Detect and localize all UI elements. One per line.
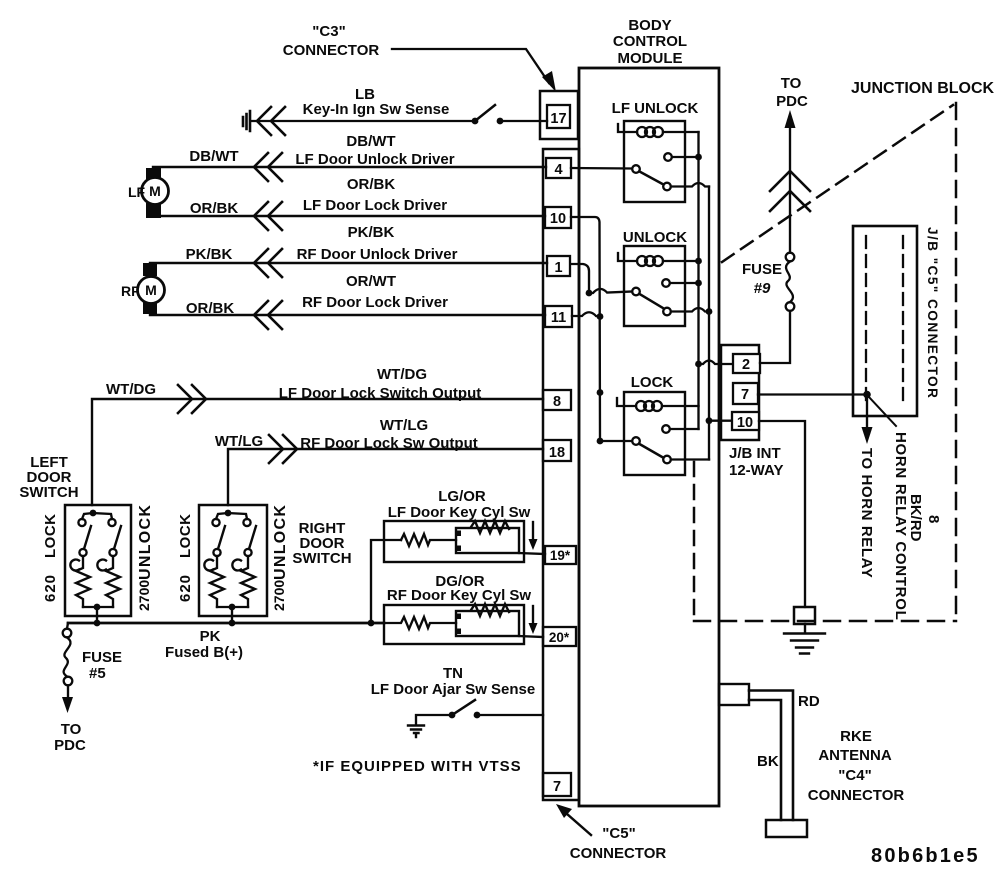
wire OR/WT RF door lock driver bbox=[150, 314, 545, 316]
relay UNLOCK lower contact bbox=[663, 308, 671, 316]
right door switch box bbox=[199, 505, 267, 616]
svg-text:LOCK: LOCK bbox=[177, 514, 194, 559]
svg-text:LF: LF bbox=[128, 184, 146, 200]
relay UNLOCK blade bbox=[640, 294, 664, 308]
svg-text:PDC: PDC bbox=[54, 737, 86, 754]
svg-text:BODY: BODY bbox=[628, 17, 671, 34]
svg-text:LF UNLOCK: LF UNLOCK bbox=[612, 100, 699, 117]
svg-text:JUNCTION BLOCK: JUNCTION BLOCK bbox=[851, 80, 995, 97]
RKE antenna connector stub bbox=[719, 684, 749, 705]
svg-text:PK: PK bbox=[200, 628, 221, 645]
svg-text:SWITCH: SWITCH bbox=[19, 484, 78, 501]
RF door key cyl switch box bbox=[384, 605, 524, 644]
wire J/B pin7 to horn relay bbox=[758, 393, 867, 395]
label C3 CONNECTOR bbox=[283, 23, 380, 59]
wire PK fused B+ bus bbox=[68, 622, 384, 625]
svg-text:18: 18 bbox=[549, 445, 565, 461]
node pin11 join bbox=[597, 313, 604, 320]
relay LF UNLOCK common contact bbox=[632, 165, 640, 173]
junction block dashed right edge bbox=[955, 103, 958, 619]
svg-text:DB/WT: DB/WT bbox=[189, 148, 238, 165]
svg-text:UNLOCK: UNLOCK bbox=[623, 229, 687, 246]
svg-text:TO: TO bbox=[61, 721, 82, 738]
LF door ajar switch bbox=[416, 715, 452, 725]
svg-text:RF Door Unlock Driver: RF Door Unlock Driver bbox=[297, 246, 458, 263]
node horn relay wire bbox=[863, 391, 871, 399]
relay LF UNLOCK blade bbox=[640, 172, 664, 185]
svg-text:WT/LG: WT/LG bbox=[380, 417, 428, 434]
svg-text:TO HORN RELAY: TO HORN RELAY bbox=[858, 448, 875, 578]
J/B pin 2 bbox=[733, 354, 760, 373]
chevron arrows on key-in wire bbox=[257, 107, 285, 135]
pointer line BK/RD label bbox=[869, 397, 896, 426]
motor LF bbox=[146, 168, 161, 180]
wire pin 10 lock driver line bbox=[571, 217, 600, 441]
node right switch top bbox=[225, 510, 232, 517]
svg-text:CONTROL: CONTROL bbox=[613, 33, 687, 50]
wire LF key cyl to pin 19 bbox=[519, 553, 545, 554]
svg-text:620: 620 bbox=[177, 574, 194, 602]
RKE antenna block bbox=[766, 820, 807, 837]
label C5 CONNECTOR bottom bbox=[570, 825, 667, 862]
wire DB/WT LF door unlock driver bbox=[153, 166, 546, 168]
resistor 2700 right switch bbox=[241, 556, 255, 607]
left door switch box bbox=[65, 505, 131, 616]
wire fuse 9 to PDC bbox=[789, 125, 791, 253]
relay LF UNLOCK upper contact bbox=[664, 153, 672, 161]
wire pin 1 to unlock common bbox=[571, 264, 589, 293]
right switch C hooks bbox=[204, 560, 213, 571]
svg-text:"C3": "C3" bbox=[312, 23, 345, 40]
label TN LF Door Ajar Sw Sense bbox=[371, 665, 535, 698]
arrow to horn relay bbox=[866, 395, 868, 430]
svg-text:J/B INT: J/B INT bbox=[729, 445, 781, 462]
svg-text:7: 7 bbox=[553, 779, 561, 795]
relay LOCK upper contact bbox=[662, 425, 670, 433]
relay LOCK lower contact bbox=[663, 456, 671, 464]
label LG/OR LF Door Key Cyl Sw bbox=[388, 488, 531, 521]
svg-text:*IF EQUIPPED WITH VTSS: *IF EQUIPPED WITH VTSS bbox=[313, 758, 522, 775]
svg-text:SWITCH: SWITCH bbox=[292, 550, 351, 567]
svg-text:WT/DG: WT/DG bbox=[377, 366, 427, 383]
RF key cyl contacts bbox=[456, 614, 461, 620]
junction block dashed diagonal bbox=[722, 105, 953, 262]
wire WT/DG LF door lock switch output bbox=[92, 399, 543, 505]
wire WT/LG RF door lock sw output bbox=[228, 449, 543, 505]
right switch contacts and blades bbox=[216, 513, 247, 519]
chevrons on PDC wire bbox=[770, 171, 810, 211]
right door switch rotated labels bbox=[177, 504, 289, 611]
pin 4 bbox=[546, 158, 571, 178]
svg-text:OR/WT: OR/WT bbox=[346, 273, 396, 290]
body control module outline bbox=[579, 68, 719, 806]
resistor RF key cyl left bbox=[384, 617, 456, 629]
J/B pin 7 bbox=[733, 383, 758, 404]
svg-text:Key-In Ign Sw Sense: Key-In Ign Sw Sense bbox=[303, 101, 450, 118]
wire switch to pin 17 bbox=[500, 120, 547, 122]
LF door key cyl switch box bbox=[384, 521, 524, 562]
label TO PDC bottom left bbox=[54, 721, 86, 754]
svg-text:Fused B(+): Fused B(+) bbox=[165, 644, 243, 661]
svg-text:4: 4 bbox=[554, 162, 562, 178]
svg-text:CONNECTOR: CONNECTOR bbox=[570, 845, 667, 862]
J/B INT 12-WAY connector outline bbox=[721, 345, 759, 440]
pin 20 bbox=[543, 627, 576, 646]
ground connector box bbox=[794, 607, 815, 624]
svg-text:LF Door Lock Switch Output: LF Door Lock Switch Output bbox=[279, 385, 482, 402]
svg-text:OR/BK: OR/BK bbox=[347, 176, 396, 193]
junction block dashed left edge bbox=[693, 462, 696, 621]
svg-text:#5: #5 bbox=[89, 665, 106, 682]
svg-text:RF: RF bbox=[121, 283, 140, 299]
svg-text:PK/BK: PK/BK bbox=[186, 246, 233, 263]
svg-text:J/B "C5" CONNECTOR: J/B "C5" CONNECTOR bbox=[925, 227, 940, 399]
svg-text:#9: #9 bbox=[754, 280, 771, 297]
J/B pin 10 bbox=[732, 412, 759, 430]
svg-text:1: 1 bbox=[554, 260, 562, 276]
relay LF UNLOCK lower contact bbox=[663, 183, 671, 191]
wire RD bbox=[749, 691, 793, 821]
svg-text:17: 17 bbox=[550, 111, 566, 127]
svg-text:RD: RD bbox=[798, 693, 820, 710]
svg-text:FUSE: FUSE bbox=[82, 649, 122, 666]
RF key cyl inner switch box bbox=[456, 611, 519, 636]
pin 8 bbox=[543, 390, 571, 410]
fuse #5 bbox=[67, 623, 68, 629]
junction block dashed bottom edge bbox=[694, 620, 956, 623]
relay UNLOCK common contact bbox=[632, 288, 640, 296]
svg-text:10: 10 bbox=[737, 415, 753, 431]
relay LOCK common contact bbox=[632, 437, 640, 445]
svg-text:LF Door Unlock Driver: LF Door Unlock Driver bbox=[295, 151, 454, 168]
wire node to LOCK common bbox=[600, 440, 632, 442]
node line B to J/B pin 10 bbox=[706, 417, 713, 424]
svg-text:RF Door Lock Driver: RF Door Lock Driver bbox=[302, 294, 448, 311]
svg-text:UNLOCK: UNLOCK bbox=[137, 504, 154, 580]
ground ajar switch bbox=[408, 726, 424, 738]
svg-text:LF Door Lock Driver: LF Door Lock Driver bbox=[303, 197, 447, 214]
pin 19 bbox=[545, 546, 576, 564]
svg-text:LF Door Ajar Sw Sense: LF Door Ajar Sw Sense bbox=[371, 681, 535, 698]
wire key-in ign sw sense bbox=[251, 120, 475, 122]
wire lower contact bus line B bbox=[708, 187, 710, 460]
svg-text:OR/BK: OR/BK bbox=[190, 200, 239, 217]
svg-text:TO: TO bbox=[781, 75, 802, 92]
svg-text:M: M bbox=[149, 183, 161, 199]
svg-text:WT/LG: WT/LG bbox=[215, 433, 263, 450]
wire pin 4 to LF UNLOCK common bbox=[571, 167, 632, 170]
LF key cyl contacts bbox=[456, 531, 461, 537]
svg-text:2700: 2700 bbox=[136, 580, 152, 611]
resistor LF key cyl top bbox=[471, 521, 509, 533]
key-in wire left end connector bars bbox=[243, 111, 250, 131]
relay UNLOCK box bbox=[624, 246, 685, 326]
fuse #9 bbox=[786, 302, 795, 311]
svg-text:FUSE: FUSE bbox=[742, 261, 782, 278]
pin 10 bbox=[545, 207, 571, 228]
node lock common join bbox=[597, 438, 604, 445]
label RKE ANTENNA C4 CONNECTOR bbox=[808, 728, 905, 804]
svg-text:OR/BK: OR/BK bbox=[186, 300, 235, 317]
key-in switch bbox=[472, 118, 479, 125]
relay LOCK box bbox=[624, 392, 685, 475]
svg-text:LOCK: LOCK bbox=[42, 514, 59, 559]
svg-text:RKE: RKE bbox=[840, 728, 872, 745]
svg-text:12-WAY: 12-WAY bbox=[729, 462, 783, 479]
svg-text:M: M bbox=[145, 282, 157, 298]
wire line B to J/B pin 10 bbox=[709, 420, 732, 422]
svg-text:TN: TN bbox=[443, 665, 463, 682]
wire J/B pin2 to fuse 9 bbox=[760, 311, 790, 363]
svg-text:UNLOCK: UNLOCK bbox=[272, 504, 289, 580]
label LB Key-In Ign Sw Sense bbox=[303, 86, 450, 118]
motor RF bbox=[143, 263, 157, 276]
resistor RF key cyl top bbox=[471, 604, 509, 616]
svg-text:LG/OR: LG/OR bbox=[438, 488, 486, 505]
relay LOCK blade bbox=[640, 444, 664, 458]
svg-text:8: 8 bbox=[925, 515, 942, 523]
svg-text:CONNECTOR: CONNECTOR bbox=[808, 787, 905, 804]
label J/B INT 12-WAY bbox=[729, 445, 783, 479]
svg-text:11: 11 bbox=[551, 310, 566, 326]
label RIGHT DOOR SWITCH bbox=[292, 520, 351, 567]
svg-text:19*: 19* bbox=[550, 548, 571, 563]
svg-text:WT/DG: WT/DG bbox=[106, 381, 156, 398]
arrow into pin 19 bbox=[532, 522, 534, 540]
resistor LF key cyl left bbox=[401, 534, 456, 546]
resistor 2700 left switch bbox=[106, 556, 120, 607]
arrow to PDC bbox=[785, 110, 796, 128]
wire B+ bus line A bbox=[697, 132, 699, 429]
pin 17 bbox=[547, 105, 570, 128]
label LEFT DOOR SWITCH bbox=[19, 454, 78, 501]
wire ajar switch to BCM bbox=[477, 714, 543, 716]
wire branch to LF key cyl switch bbox=[371, 540, 401, 623]
ground symbol right bbox=[784, 624, 825, 654]
svg-text:2: 2 bbox=[742, 357, 750, 373]
svg-text:"C5": "C5" bbox=[602, 825, 635, 842]
svg-text:RF Door Key Cyl Sw: RF Door Key Cyl Sw bbox=[387, 587, 532, 604]
svg-text:RF Door Lock Sw Output: RF Door Lock Sw Output bbox=[300, 435, 478, 452]
C3 connector box bbox=[540, 91, 578, 139]
wire node to UNLOCK common bbox=[589, 289, 632, 293]
wire pin 11 joins lock driver line bbox=[572, 312, 600, 316]
node pin1 line bbox=[586, 290, 593, 297]
arrow into pin 20 bbox=[532, 606, 534, 624]
LF key cyl inner switch box bbox=[456, 528, 519, 553]
J/B C5 dashed pin rows bbox=[865, 236, 867, 404]
node line A to pin 2 bbox=[695, 361, 702, 368]
svg-text:7: 7 bbox=[741, 387, 749, 403]
label DG/OR RF Door Key Cyl Sw bbox=[387, 573, 532, 604]
svg-text:LF Door Key Cyl Sw: LF Door Key Cyl Sw bbox=[388, 504, 531, 521]
resistor 620 right switch bbox=[210, 556, 224, 607]
wire J/B pin10 to ground bbox=[759, 421, 805, 607]
left switch contacts and blades bbox=[82, 513, 112, 519]
svg-text:LOCK: LOCK bbox=[631, 374, 674, 391]
left door switch rotated labels LOCK 620 UNLOCK 2700 bbox=[42, 504, 154, 611]
svg-text:PDC: PDC bbox=[776, 93, 808, 110]
svg-text:8: 8 bbox=[553, 394, 561, 410]
svg-text:10: 10 bbox=[550, 211, 566, 227]
svg-text:DB/WT: DB/WT bbox=[346, 133, 395, 150]
svg-text:MODULE: MODULE bbox=[618, 50, 683, 67]
pin 11 bbox=[545, 306, 572, 327]
wire PK/BK RF door unlock driver bbox=[150, 262, 547, 264]
svg-text:620: 620 bbox=[42, 574, 59, 602]
wire line A to J/B pin 2 bbox=[699, 361, 734, 365]
relay UNLOCK upper contact bbox=[662, 279, 670, 287]
node left switch bottom bbox=[83, 607, 113, 623]
wire OR/BK LF door lock driver bbox=[153, 215, 545, 217]
wire RF key cyl to pin 20 bbox=[519, 636, 543, 637]
svg-text:ANTENNA: ANTENNA bbox=[818, 747, 891, 764]
relay UNLOCK coil bbox=[618, 253, 637, 261]
arrow to C5 connector bbox=[567, 814, 591, 835]
pin 7 bottom bbox=[543, 773, 571, 796]
svg-text:80b6b1e5: 80b6b1e5 bbox=[871, 845, 980, 867]
svg-text:BK/RD: BK/RD bbox=[907, 494, 924, 542]
svg-text:"C4": "C4" bbox=[838, 767, 871, 784]
relay LOCK coil bbox=[617, 398, 636, 406]
node right switch bottom bbox=[217, 607, 248, 623]
svg-text:2700: 2700 bbox=[271, 580, 287, 611]
relay LF UNLOCK coil bbox=[618, 124, 637, 132]
svg-text:20*: 20* bbox=[549, 630, 570, 645]
left switch C hooks bbox=[70, 560, 79, 571]
svg-text:BK: BK bbox=[757, 753, 779, 770]
svg-text:PK/BK: PK/BK bbox=[348, 224, 395, 241]
relay LF UNLOCK box bbox=[624, 121, 685, 202]
svg-text:HORN RELAY CONTROL: HORN RELAY CONTROL bbox=[892, 432, 909, 620]
node on lock driver line bbox=[597, 389, 604, 396]
pointer line to C3 connector bbox=[392, 49, 549, 83]
pin 1 bbox=[547, 256, 570, 276]
resistor 620 left switch bbox=[76, 556, 90, 607]
C5 connector strip bbox=[543, 149, 579, 800]
node left switch top bbox=[90, 510, 97, 517]
pin 18 bbox=[543, 440, 571, 461]
J/B C5 connector box bbox=[853, 226, 917, 416]
wire BK bbox=[749, 700, 781, 820]
label BODY CONTROL MODULE bbox=[613, 17, 687, 67]
svg-text:CONNECTOR: CONNECTOR bbox=[283, 42, 380, 59]
